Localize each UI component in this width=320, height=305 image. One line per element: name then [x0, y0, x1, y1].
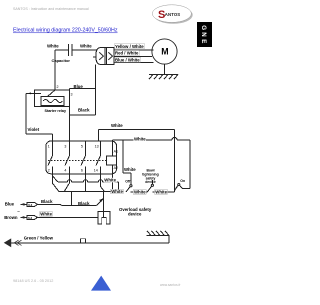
svg-text:Blue: Blue	[74, 84, 84, 89]
svg-text:White: White	[40, 212, 52, 217]
wire bottom chain	[59, 191, 175, 193]
starter relay coil wave	[43, 99, 62, 102]
node arrows mains blue	[21, 203, 25, 206]
svg-text:White: White	[134, 137, 146, 142]
svg-text:Brown: Brown	[4, 215, 18, 220]
ENG tab	[197, 22, 212, 47]
svg-text:A2: A2	[114, 166, 118, 170]
label white middle run	[104, 178, 117, 183]
wire mains black riser	[71, 192, 73, 206]
svg-text:98148 US 2.6 - 05 2012: 98148 US 2.6 - 05 2012	[13, 279, 53, 283]
wire red/white to motor	[114, 56, 152, 58]
wire pin4 slant to chain	[64, 184, 69, 192]
svg-text:3: 3	[71, 93, 73, 97]
svg-text:On: On	[180, 179, 185, 183]
header text	[13, 7, 89, 11]
label red/white	[115, 50, 140, 55]
wire white run middle	[58, 180, 119, 182]
footer right text	[160, 283, 181, 287]
wire rail1 white	[98, 129, 174, 131]
svg-text:Electrical wiring diagram 220-: Electrical wiring diagram 220-240V_50/60…	[13, 28, 118, 34]
svg-text:G: G	[200, 25, 207, 30]
earth arrow	[5, 239, 22, 246]
contactor pole 3-4	[65, 115, 70, 184]
label white chain 1	[133, 190, 146, 195]
label white chain 0	[111, 189, 124, 194]
contactor pole 5-6	[81, 141, 86, 192]
footer triangle	[91, 276, 111, 291]
svg-text:N: N	[200, 32, 207, 37]
svg-text:White: White	[104, 178, 116, 183]
svg-text:Black: Black	[78, 107, 90, 112]
wire rail1 drop to on switch	[174, 130, 176, 193]
starter relay coil box	[41, 97, 64, 106]
contactor pole 13-14	[96, 141, 101, 166]
svg-text:Blue / White: Blue / White	[115, 57, 140, 62]
svg-text:Starter relay: Starter relay	[45, 109, 67, 113]
wire off branch horizontal	[123, 172, 131, 174]
capacitor C	[69, 44, 73, 56]
svg-text:6: 6	[81, 169, 83, 173]
wire blue relay pin3	[70, 89, 96, 91]
wire pin14 run	[101, 166, 105, 191]
wire pin2 to white run	[53, 166, 60, 191]
svg-text:2: 2	[57, 85, 59, 89]
node arrows mains brown	[17, 209, 24, 219]
label white chain 2	[155, 190, 168, 195]
svg-text:White: White	[47, 43, 59, 48]
svg-text:2: 2	[48, 169, 50, 173]
svg-text:ANTOS: ANTOS	[165, 12, 180, 17]
svg-text:White: White	[111, 123, 123, 128]
wire white mains	[37, 216, 98, 218]
label white mains	[40, 212, 53, 217]
contactor link dashed	[48, 160, 106, 162]
wire black mains	[38, 204, 97, 205]
starter relay contact blade	[48, 90, 56, 97]
brown mains arrow	[20, 216, 27, 218]
svg-text:Black: Black	[41, 199, 53, 204]
starter relay outer box	[35, 90, 70, 107]
svg-text:Red / White: Red / White	[115, 51, 139, 56]
svg-text:3: 3	[64, 144, 66, 148]
earth wire green yellow	[11, 236, 169, 244]
connector 6.3 blue	[27, 202, 38, 206]
svg-text:6.3: 6.3	[28, 203, 32, 207]
earth ground symbol	[147, 231, 170, 236]
svg-text:4: 4	[29, 92, 31, 96]
wire white to capacitor left	[55, 49, 69, 51]
on switch contact	[178, 184, 180, 186]
wire A2 drop	[112, 165, 114, 192]
svg-text:device: device	[145, 180, 156, 184]
motor M circle	[152, 39, 177, 64]
svg-text:13: 13	[95, 144, 99, 148]
svg-text:White: White	[80, 43, 92, 48]
svg-text:6.3: 6.3	[28, 216, 32, 220]
svg-text:White: White	[111, 189, 123, 194]
contactor box	[46, 141, 117, 174]
svg-text:Off: Off	[125, 180, 131, 184]
chevron pins in connector	[99, 52, 112, 60]
contactor pole 1-2	[48, 134, 53, 166]
wire white run bend down	[118, 182, 120, 192]
wire rail1 left drop to pin13	[97, 130, 99, 142]
overload blade arrow	[99, 198, 103, 202]
svg-text:Black: Black	[78, 201, 90, 206]
svg-text:SANTOS : Instruction and maint: SANTOS : Instruction and maintenance man…	[13, 7, 89, 11]
ground under motor	[149, 75, 178, 80]
svg-text:1: 1	[48, 144, 50, 148]
connector block	[96, 48, 114, 65]
svg-text:5: 5	[81, 144, 83, 148]
svg-text:www.santos.fr: www.santos.fr	[160, 283, 181, 287]
wire capacitor to connector	[72, 49, 97, 51]
wire motor to ground	[164, 64, 166, 74]
wire A1	[112, 140, 114, 156]
wire off branch drop	[122, 140, 124, 173]
wire blue/white to motor	[114, 62, 154, 64]
blue mains arrow	[21, 203, 28, 205]
wire on switch to rail2 drop	[180, 186, 190, 189]
title	[13, 28, 118, 34]
svg-text:Green / Yellow: Green / Yellow	[24, 236, 54, 241]
svg-text:White: White	[155, 190, 167, 195]
wire rail2 drop to on switch right	[189, 140, 191, 188]
wire rail2 white	[113, 137, 191, 140]
logo Santos	[152, 5, 192, 24]
svg-text:Capacitor: Capacitor	[52, 58, 71, 63]
svg-text:White: White	[134, 190, 146, 195]
wire violet drop	[25, 94, 27, 135]
svg-text:E: E	[200, 39, 207, 43]
svg-text:4: 4	[64, 169, 66, 173]
label yellow/white	[115, 44, 145, 49]
svg-text:Blue: Blue	[5, 202, 15, 207]
overload safety device box	[98, 212, 110, 225]
earth connector mark	[81, 239, 86, 243]
label white rail2	[134, 137, 147, 142]
wire black relay bottom	[69, 107, 95, 115]
off switch stub	[130, 173, 132, 185]
svg-text:14: 14	[94, 169, 98, 173]
wire white trunk from connector	[95, 65, 97, 115]
svg-text:White: White	[124, 167, 136, 172]
svg-text:A1: A1	[114, 150, 118, 154]
bowl switch stub	[151, 180, 153, 184]
wire yellow/white to motor	[114, 49, 154, 51]
svg-text:Violet: Violet	[28, 127, 40, 132]
contactor coil box A1 A2	[107, 156, 117, 165]
connector 6.3 brown	[27, 215, 38, 219]
svg-text:device: device	[128, 212, 142, 217]
svg-text:Yellow / White: Yellow / White	[115, 44, 144, 49]
wire pin4 into relay	[26, 93, 41, 95]
off switch contact	[130, 185, 132, 187]
wire pin2 drop from capacitor junction	[54, 50, 56, 90]
overload riser to chain	[102, 192, 104, 199]
overload contact	[96, 199, 103, 218]
svg-text:~: ~	[17, 209, 20, 214]
wire violet horizontal	[26, 133, 53, 135]
footer left text	[13, 279, 53, 283]
label blue/white	[115, 57, 141, 62]
svg-text:M: M	[161, 47, 168, 57]
bowl switch contact	[151, 184, 153, 186]
